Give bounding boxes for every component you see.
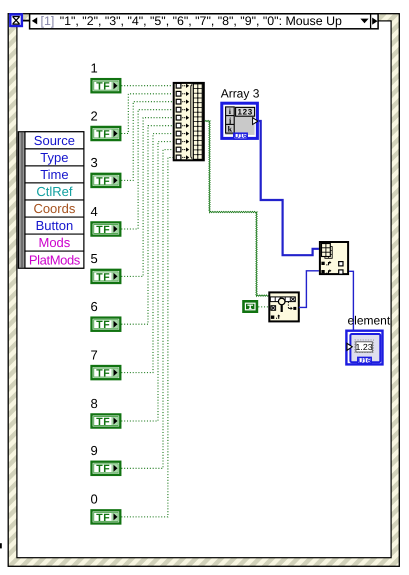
event selector label bar [30, 14, 379, 29]
event data item PlatMods [25, 251, 84, 268]
svg-text:TF: TF [96, 512, 110, 524]
svg-text:1: 1 [91, 61, 98, 76]
wire boolean terminal 6 to build array input 6 [121, 126, 172, 325]
wire boolean terminal 3 to build array input 3 [121, 102, 172, 181]
svg-text:TF: TF [96, 224, 110, 236]
svg-text:U16: U16 [234, 133, 247, 140]
array indicator Array 3 [222, 103, 258, 140]
svg-text:TF: TF [96, 81, 110, 93]
svg-text:Source: Source [34, 133, 75, 148]
wire boolean terminal 8 to build array input 8 [121, 142, 172, 421]
boolean terminal 4 (TF) [92, 222, 121, 236]
svg-text:6: 6 [91, 299, 98, 314]
wire boolean terminal 1 to build array input 1 [121, 85, 172, 87]
svg-text:TF: TF [96, 128, 110, 140]
event data item Coords [25, 200, 84, 217]
svg-text:CtlRef: CtlRef [36, 184, 73, 199]
index array node [320, 242, 348, 274]
wire boolean: T constant to search 1D array [258, 306, 268, 308]
svg-text:3: 3 [91, 155, 98, 170]
boolean terminal 9 (TF) [92, 462, 121, 476]
wire U16 array: Array 3 to index array [258, 121, 319, 255]
svg-text:element: element [348, 314, 391, 328]
svg-text:0: 0 [91, 492, 98, 507]
boolean terminal 8 (TF) [92, 414, 121, 428]
event data item Button [25, 217, 84, 234]
svg-text:2: 2 [91, 108, 98, 123]
event data item Mods [25, 234, 84, 251]
wire boolean terminal 0 to build array input 10 [121, 158, 172, 517]
svg-text:8: 8 [91, 396, 98, 411]
boolean terminal 5 (TF) [92, 270, 121, 284]
svg-text:123: 123 [237, 107, 252, 116]
boolean terminal 1 (TF) [92, 79, 121, 93]
event data item CtlRef [25, 183, 84, 200]
svg-text:TF: TF [96, 271, 110, 283]
svg-text:U16: U16 [358, 358, 371, 365]
svg-text:TF: TF [96, 319, 110, 331]
svg-text:9: 9 [91, 443, 98, 458]
event data node [18, 132, 83, 268]
wire boolean terminal 9 to build array input 9 [121, 150, 172, 469]
svg-text:Button: Button [36, 218, 74, 233]
boolean terminal 2 (TF) [92, 127, 121, 140]
event structure timeout terminal (hourglass) [10, 14, 22, 26]
stray tick at image left edge [0, 543, 2, 548]
wire timeout terminal to selector [23, 20, 30, 22]
svg-text:k: k [228, 124, 233, 133]
svg-text:Array 3: Array 3 [221, 87, 260, 101]
svg-text:TF: TF [96, 416, 110, 428]
wire boolean terminal 4 to build array input 4 [121, 110, 172, 229]
wire boolean terminal 5 to build array input 5 [121, 118, 172, 277]
wire I32: search output to index array index input [299, 271, 319, 308]
boolean terminal 0 (TF) [92, 510, 121, 524]
true constant T [242, 300, 258, 313]
svg-text:Coords: Coords [33, 201, 75, 216]
boolean terminal 6 (TF) [92, 318, 121, 332]
svg-text:[1] "1", "2", "3", "4", "5", ": [1] "1", "2", "3", "4", "5", "6", "7", "… [41, 14, 343, 28]
boolean terminal 7 (TF) [92, 366, 121, 380]
svg-text:7: 7 [91, 347, 98, 362]
svg-text:TF: TF [96, 463, 110, 475]
svg-text:TF: TF [96, 368, 110, 380]
svg-text:5: 5 [91, 251, 98, 266]
event data item Time [25, 166, 84, 183]
svg-text:Type: Type [40, 150, 68, 165]
svg-text:PlatMods: PlatMods [29, 252, 81, 267]
boolean terminal 3 (TF) [92, 174, 121, 188]
svg-text:TF: TF [96, 175, 110, 187]
wire U16: index array output to element indicator [349, 271, 353, 330]
wire boolean terminal 2 to build array input 2 [121, 94, 172, 134]
svg-text:Mods: Mods [39, 235, 71, 250]
event data item Source [25, 132, 84, 149]
build array node [174, 83, 204, 160]
wire boolean terminal 7 to build array input 7 [121, 134, 172, 373]
wire boolean array: build array output to search 1D array [205, 120, 269, 296]
event data item Type [25, 149, 84, 166]
svg-text:4: 4 [91, 204, 98, 219]
search 1D array node [269, 292, 299, 321]
svg-text:Time: Time [40, 167, 68, 182]
svg-text:1.23: 1.23 [356, 342, 373, 352]
numeric indicator element [346, 331, 382, 365]
